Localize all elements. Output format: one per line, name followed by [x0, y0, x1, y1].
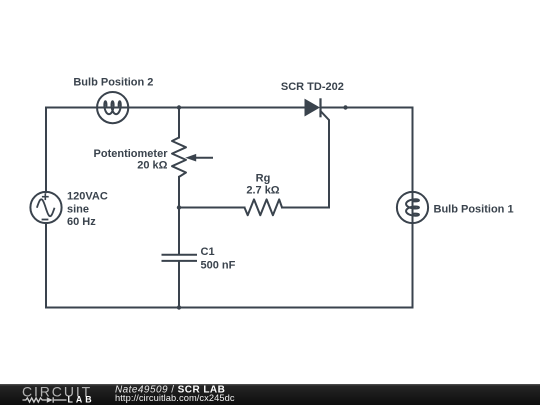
wire mid node to C1 top [178, 208, 180, 254]
wire mid horizontal left of Rg [179, 207, 245, 209]
capacitor C1 plates [162, 255, 198, 261]
resistor Rg 2.7k [245, 199, 283, 215]
junction dot cathode net [343, 105, 347, 109]
bulb B2 Bulb Position 2 [97, 92, 128, 123]
wire left rail top [45, 108, 47, 193]
wiper arrow line [196, 157, 214, 159]
wire pot top lead [178, 108, 180, 138]
wire bottom [46, 307, 413, 309]
wire top [46, 107, 305, 109]
wire left rail bottom [45, 223, 47, 307]
voltage source V1 120VAC [30, 192, 61, 223]
svg-text:http://circuitlab.com/cx245dc: http://circuitlab.com/cx245dc [115, 393, 235, 403]
SCR TD-202 symbol [305, 98, 321, 117]
wiper arrowhead [185, 154, 196, 162]
wire C1 bottom lead [178, 262, 180, 308]
footer bar [0, 384, 540, 405]
bulb B1 Bulb Position 1 [397, 192, 428, 223]
wire mid horizontal right of Rg [282, 207, 329, 209]
junction dot bottom [177, 305, 181, 309]
junction dot top [177, 105, 181, 109]
junction dot mid [177, 205, 181, 209]
logo diode triangle [47, 397, 53, 403]
wire SCR gate [321, 112, 329, 208]
wire top right cathode to corner [321, 107, 413, 109]
wire pot bottom to mid node [178, 177, 180, 208]
wire right rail [412, 108, 414, 308]
potentiometer 20k [172, 138, 213, 177]
svg-text:LAB: LAB [68, 395, 95, 405]
logo resistor squiggle [23, 397, 67, 402]
